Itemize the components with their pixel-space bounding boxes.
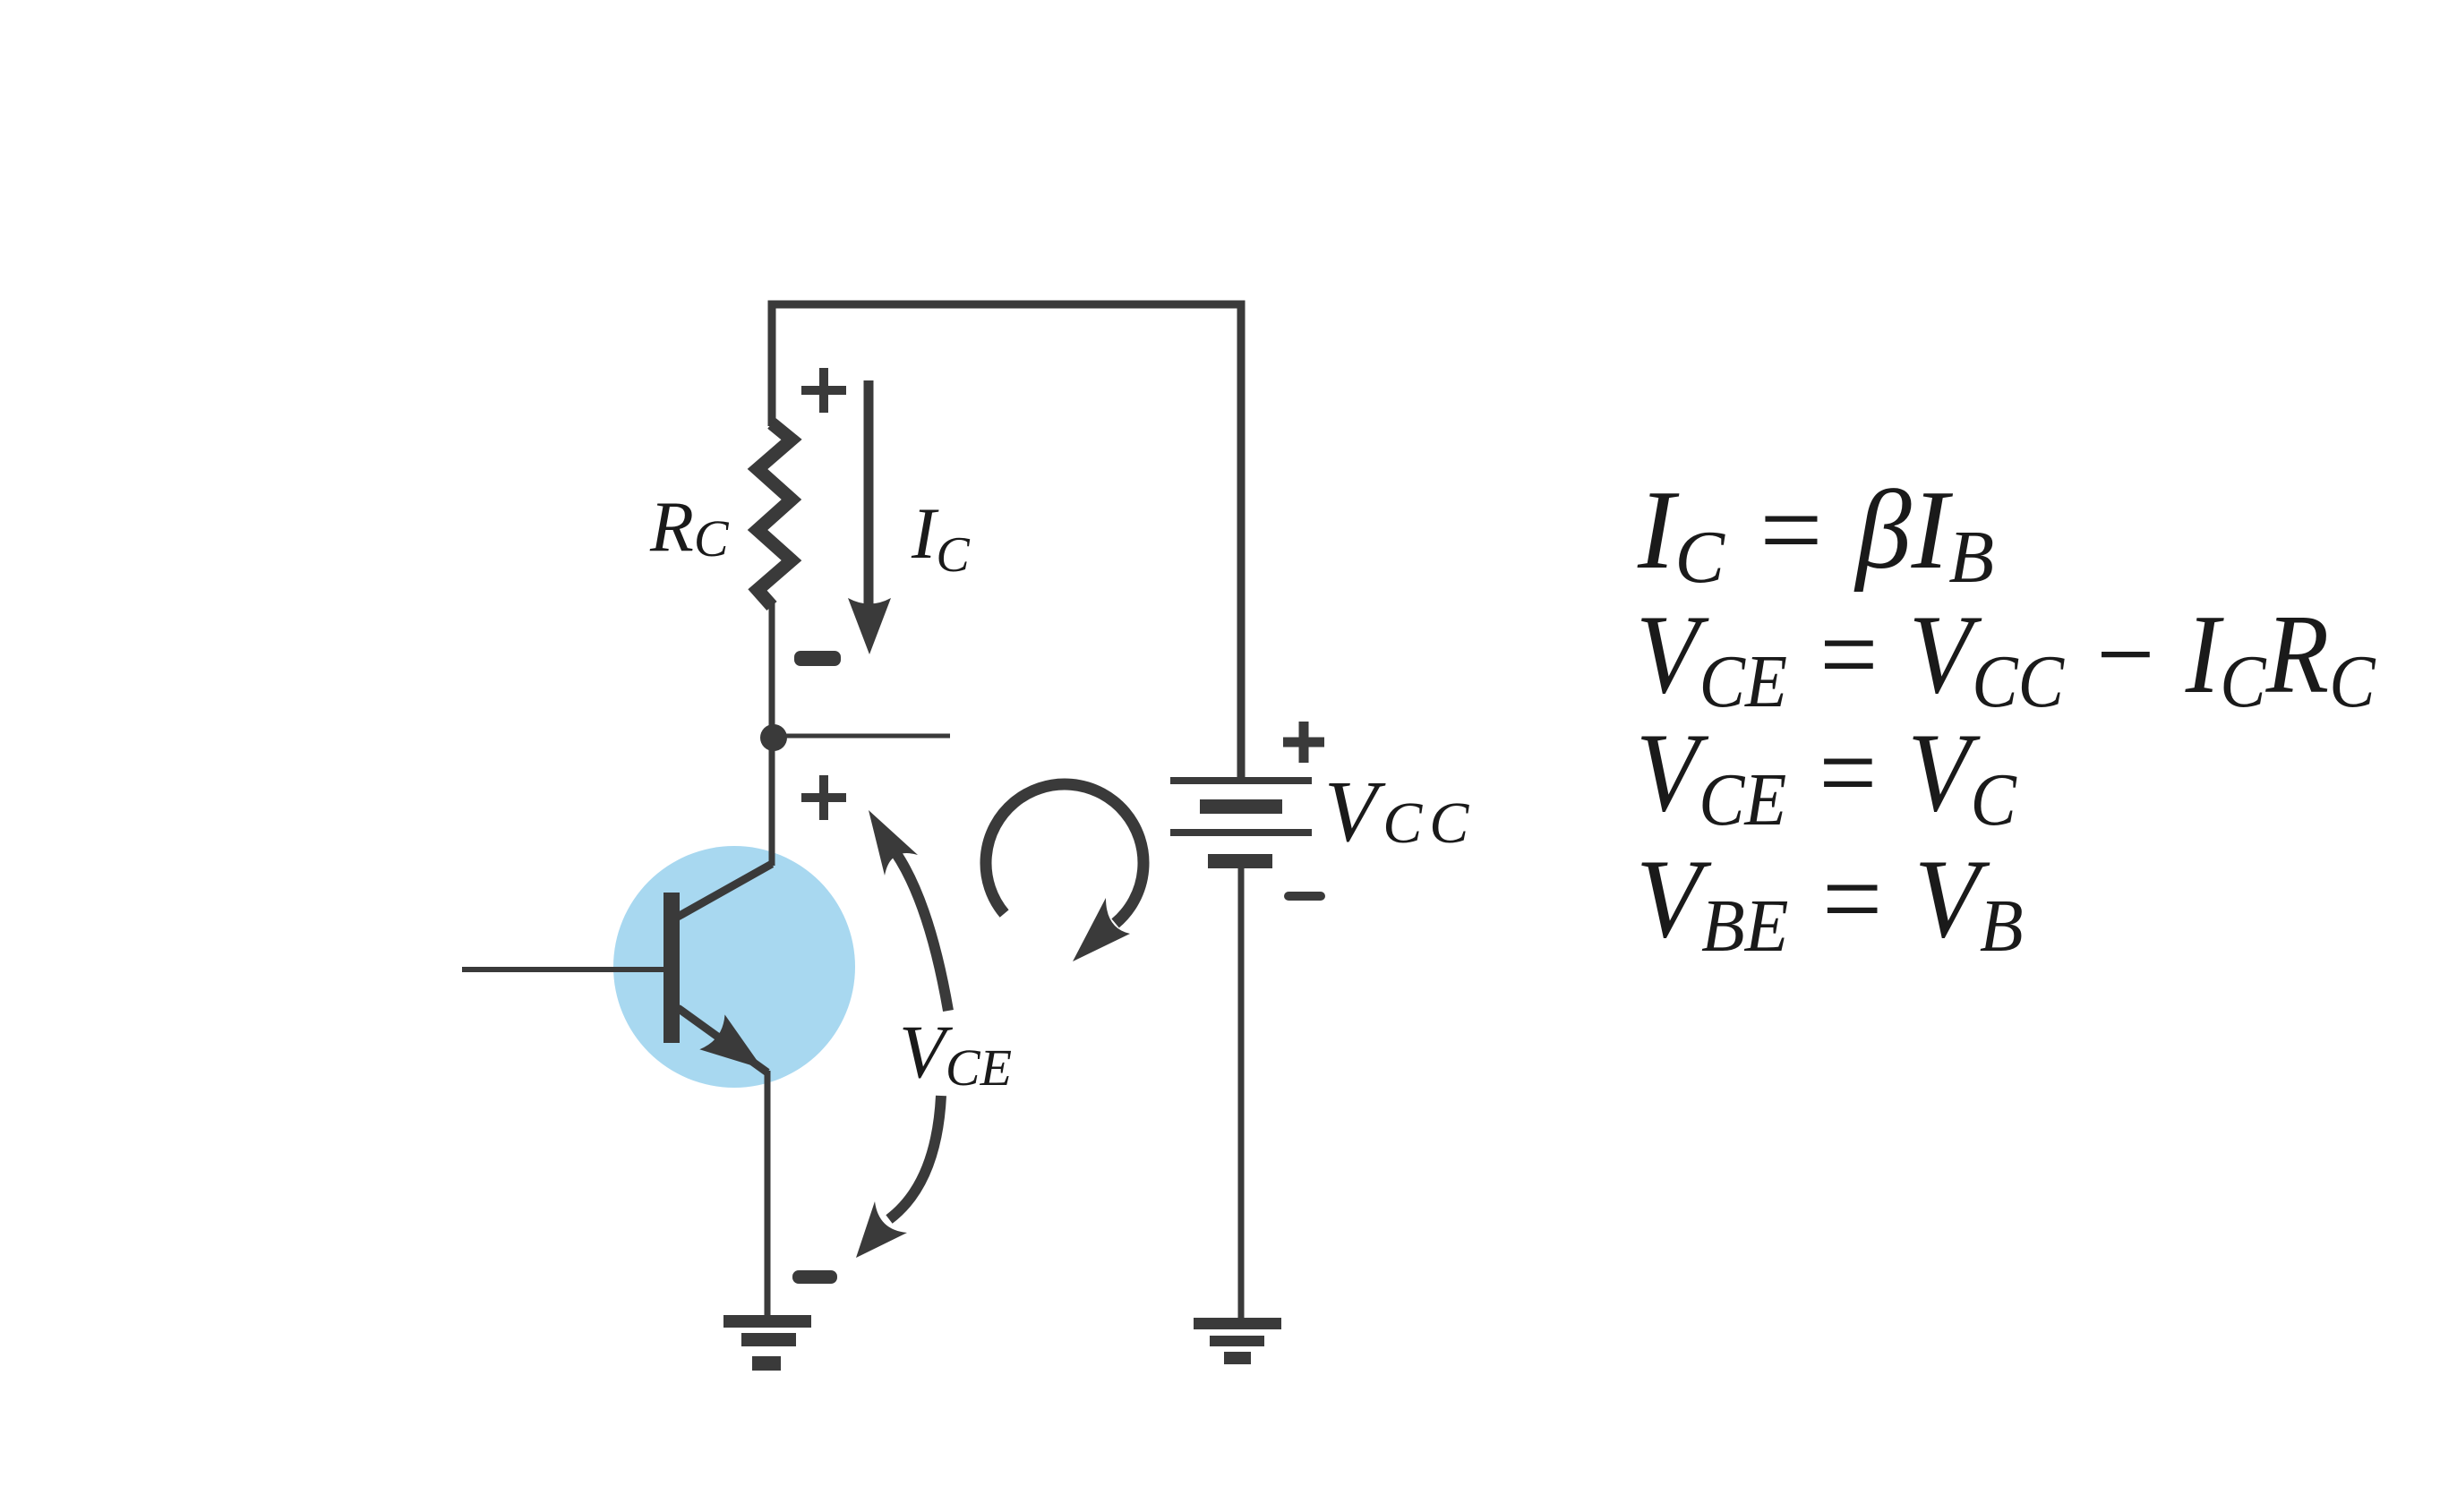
circular loop arrowhead	[1073, 898, 1130, 961]
svg-text:RC: RC	[649, 488, 730, 568]
VCE arrowhead upper	[869, 810, 918, 876]
VCE arc lower	[889, 1096, 941, 1219]
node dot at collector	[760, 724, 787, 751]
svg-text:IC = βIB: IC = βIB	[1637, 467, 1994, 599]
ground symbol left bar2	[741, 1333, 796, 1346]
plus sign at battery top	[1283, 722, 1324, 763]
wire stub from node to the right	[772, 734, 950, 739]
transistor Q1 emitter lead	[678, 1008, 767, 1072]
minus sign at emitter bottom	[792, 1270, 837, 1284]
svg-text:VCE = VCC − ICRC: VCE = VCC − ICRC	[1636, 592, 2376, 722]
current arrow IC shaft	[864, 380, 874, 622]
ground symbol left bar3	[752, 1356, 781, 1371]
wire top loop: left riser, top run, right drop to battery	[772, 304, 1241, 778]
transistor Q1 collector lead	[678, 864, 772, 917]
ground symbol left bar1	[723, 1315, 811, 1328]
circular loop arrow arc	[986, 784, 1143, 923]
battery VCC plate 2 short	[1200, 799, 1282, 814]
svg-text:VCE = VC: VCE = VC	[1636, 710, 2017, 841]
battery bottom wire	[1238, 868, 1245, 1320]
wire resistor bottom to collector bend	[769, 603, 775, 866]
svg-text:VBE = VB: VBE = VB	[1636, 836, 2024, 967]
plus sign at collector	[801, 775, 846, 820]
minus sign at battery bottom	[1284, 892, 1325, 901]
base wire	[462, 967, 664, 972]
battery VCC plate 4 short	[1208, 854, 1272, 868]
VCE arrowhead lower	[856, 1201, 907, 1258]
VCE arc upper	[895, 852, 948, 1011]
transistor highlight circle	[613, 846, 855, 1088]
battery VCC plate 1 long	[1170, 777, 1312, 784]
ground symbol right bar2	[1210, 1336, 1264, 1346]
ground symbol right bar3	[1224, 1352, 1251, 1364]
emitter wire down to ground	[765, 1071, 771, 1317]
resistor RC zigzag	[758, 423, 792, 606]
transistor Q1 emitter arrowhead	[699, 1014, 763, 1069]
plus sign at resistor top	[801, 368, 846, 413]
transistor Q1 base bar	[663, 893, 680, 1043]
minus sign below resistor	[794, 651, 841, 666]
svg-text:IC: IC	[911, 492, 970, 583]
battery VCC plate 3 long	[1170, 829, 1312, 836]
svg-text:VCC: VCC	[1324, 764, 1476, 859]
svg-text:VCE: VCE	[899, 1010, 1012, 1097]
ground symbol right bar1	[1194, 1318, 1281, 1329]
current arrow IC head	[848, 598, 891, 654]
